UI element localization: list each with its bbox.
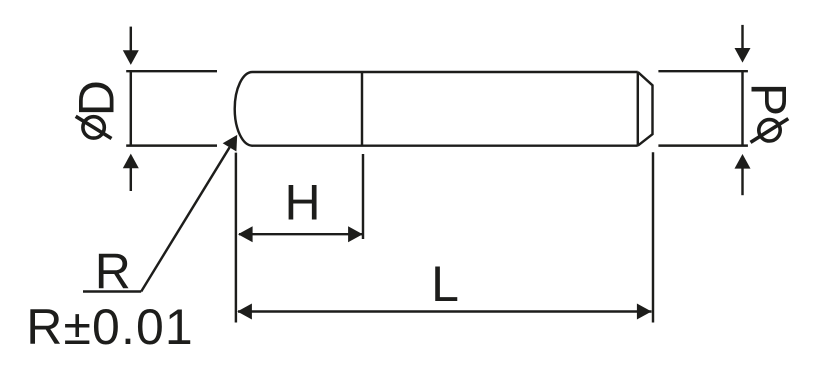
svg-text:D: D [69, 80, 125, 116]
svg-text:R±0.01: R±0.01 [26, 299, 193, 355]
svg-text:H: H [284, 175, 320, 231]
svg-text:L: L [431, 256, 459, 312]
svg-text:P: P [741, 83, 797, 116]
svg-text:R: R [95, 243, 131, 299]
